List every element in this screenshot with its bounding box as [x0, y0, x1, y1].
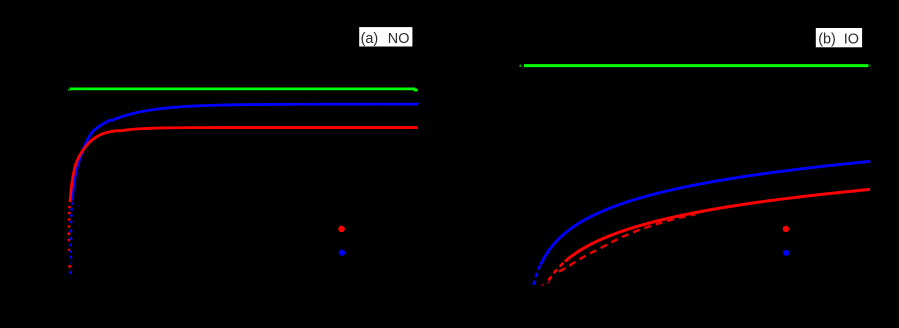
- legend red dot panel b: [783, 226, 789, 232]
- red dotted tail panel a: [69, 200, 72, 203]
- green line panel b: [524, 64, 868, 67]
- green line panel a: [70, 89, 418, 90]
- red curve panel b faint tail: [541, 281, 552, 286]
- svg-text:NO: NO: [388, 31, 410, 47]
- red curve panel b dashed secondary trace: [559, 214, 695, 271]
- green line panel b fading end: [868, 65, 870, 67]
- label box (b) IO: [816, 28, 862, 47]
- green line panel b start marker: [519, 64, 522, 67]
- label box (a) NO: [359, 27, 412, 46]
- blue dotted tail panel a: [71, 202, 74, 205]
- legend blue dot panel b: [783, 250, 789, 256]
- red curve panel a: [70, 128, 417, 201]
- svg-text:IO: IO: [844, 32, 859, 48]
- blue curve panel a: [72, 104, 418, 200]
- legend red dot panel a: [338, 226, 345, 233]
- legend blue dot panel a: [339, 249, 345, 255]
- blue curve panel b: [541, 161, 871, 264]
- green line panel a start marker: [68, 89, 70, 91]
- svg-text:(b): (b): [818, 32, 836, 48]
- red curve panel b: [565, 189, 870, 261]
- blue curve panel b dashed head: [534, 265, 541, 285]
- red curve panel b dashed head: [549, 262, 565, 281]
- svg-text:(a): (a): [361, 31, 379, 47]
